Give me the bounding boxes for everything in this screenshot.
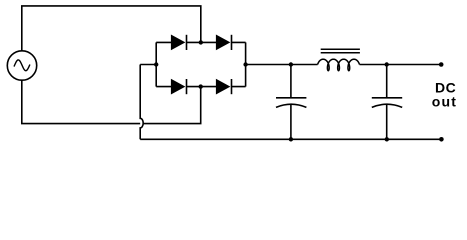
- inductor L1 core lines: [321, 49, 360, 52]
- node C2 top: [385, 62, 389, 66]
- wire bridge right edge: [245, 42, 247, 86]
- node bridge top center: [199, 40, 203, 44]
- inductor L1 coil: [318, 59, 360, 70]
- node C2 bottom: [385, 137, 389, 141]
- wire top rail right segment: [360, 64, 442, 66]
- wire crossover hop: [140, 65, 143, 140]
- node bridge bottom center: [199, 84, 203, 88]
- node C1 top: [289, 62, 293, 66]
- label DC out: [432, 80, 457, 110]
- wire top rail left segment: [246, 64, 318, 66]
- wire AC source bottom to bridge bottom center: [22, 80, 201, 123]
- wire bridge top row: [156, 41, 245, 43]
- diode D2: [217, 35, 232, 50]
- node C1 bottom: [289, 137, 293, 141]
- diode D4: [217, 79, 232, 94]
- svg-text:out: out: [432, 94, 457, 110]
- wire bridge bottom row: [156, 86, 245, 88]
- wire bridge left edge: [155, 42, 157, 86]
- capacitor C1: [276, 65, 306, 140]
- terminal DC out minus: [439, 137, 444, 142]
- diode D1: [172, 35, 187, 50]
- capacitor C2: [372, 65, 402, 140]
- node bridge right: [243, 62, 247, 66]
- wire bottom rail: [140, 138, 441, 140]
- wire AC source top to bridge top center: [22, 6, 201, 51]
- terminal DC out plus: [439, 62, 444, 67]
- wire bridge left node stub: [140, 64, 156, 66]
- node bridge left: [154, 62, 158, 66]
- diode D3: [172, 79, 187, 94]
- AC source V1: [7, 51, 36, 80]
